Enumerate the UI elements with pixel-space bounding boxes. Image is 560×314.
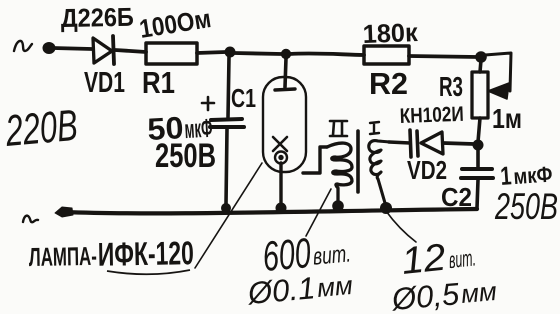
node E junction (C1 bottom) <box>221 203 231 213</box>
label winding II <box>330 121 347 136</box>
svg-text:220В: 220В <box>3 101 80 156</box>
node D junction <box>473 140 484 151</box>
svg-text:C1: C1 <box>231 83 256 113</box>
wire node B to lamp <box>285 58 286 87</box>
lamp electrode bar <box>275 89 295 90</box>
wire C2 to bottom rail <box>477 180 478 208</box>
wire VD2 to winding I <box>389 142 410 143</box>
wire lamp to bottom rail <box>279 163 282 204</box>
pointer line 12 turns <box>386 211 416 242</box>
wire terminal to VD1 <box>53 48 92 49</box>
svg-text:180к: 180к <box>362 17 419 49</box>
capacitor C2 <box>462 167 492 171</box>
winding II coil <box>327 143 352 203</box>
svg-text:VD2: VD2 <box>407 155 447 185</box>
winding I coil <box>369 141 390 203</box>
svg-text:1м: 1м <box>492 103 522 134</box>
node H junction (winding I bottom) <box>380 202 392 214</box>
bottom rail wire <box>64 209 477 213</box>
lamp trigger x mark <box>273 137 287 151</box>
lamp bottom electrode circle <box>275 152 287 164</box>
resistor R2 <box>364 46 409 64</box>
capacitor C1 <box>211 119 242 120</box>
node F junction (lamp bottom) <box>276 203 287 214</box>
trigger wire lamp to winding II <box>303 147 327 173</box>
resistor R1 <box>146 43 197 64</box>
resistor R3 (rheostat body) <box>472 72 488 118</box>
C1 plus sign <box>202 97 214 110</box>
AC terminal bottom-left dot <box>55 207 73 217</box>
wire node C to R3 <box>480 60 481 72</box>
wire R1 to node A <box>197 52 226 53</box>
label winding I <box>370 122 379 134</box>
dynistor VD2 <box>421 132 443 154</box>
R3 wiper arm <box>485 53 511 91</box>
lamp envelope <box>263 77 306 172</box>
wire node A to C1 <box>228 57 229 117</box>
AC terminal top-left dot <box>43 42 56 54</box>
wire node A to node B <box>234 53 282 54</box>
svg-text:R2: R2 <box>369 66 408 101</box>
wire VD1 to R1 <box>115 50 146 52</box>
svg-text:VD1: VD1 <box>84 67 125 99</box>
AC terminal bottom-left tilde <box>23 216 38 223</box>
underline lampa <box>107 270 190 274</box>
node G junction (winding II bottom) <box>332 200 344 212</box>
svg-text:КН102И: КН102И <box>399 103 464 128</box>
svg-text:C2: C2 <box>441 182 472 212</box>
wire node D to VD2 <box>443 143 474 144</box>
node C junction <box>475 51 487 63</box>
diode VD1 <box>93 38 112 63</box>
svg-text:R1: R1 <box>142 65 175 100</box>
wire R2 to node C <box>409 56 478 57</box>
pointer line to lamp label <box>195 163 262 268</box>
svg-text:Д226Б: Д226Б <box>61 2 135 33</box>
pointer line 600 turns <box>306 189 331 236</box>
svg-text:250В: 250В <box>494 186 558 227</box>
wire C1 to bottom rail <box>226 129 227 204</box>
wire node D to C2 <box>476 149 480 168</box>
wire node B to R2 <box>290 53 364 55</box>
node B junction (lamp top) <box>281 49 291 59</box>
svg-text:R3: R3 <box>439 71 463 102</box>
AC terminal top-left tilde <box>14 41 32 51</box>
wire R3 to node D <box>478 118 480 142</box>
transformer core <box>356 131 360 192</box>
svg-text:250В: 250В <box>155 137 216 175</box>
node A junction <box>225 47 236 58</box>
